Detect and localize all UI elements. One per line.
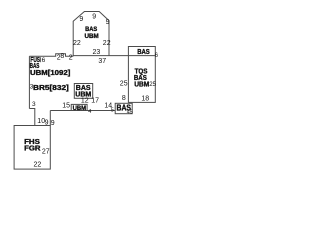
west wall [28, 56, 30, 108]
boxed label BAS (south-east porch box) [115, 103, 132, 113]
svg-text:22: 22 [73, 40, 81, 47]
garage FHS/FGR box [14, 126, 50, 170]
svg-text:25: 25 [120, 81, 128, 88]
TQS right section rectangle [128, 47, 155, 103]
svg-text:23: 23 [93, 49, 101, 56]
svg-text:UBM[1092]: UBM[1092] [30, 70, 70, 77]
svg-text:5: 5 [111, 107, 114, 113]
svg-text:8: 8 [60, 53, 64, 60]
dim 16 [40, 57, 42, 62]
svg-text:UBM: UBM [73, 105, 87, 112]
svg-text:25: 25 [149, 81, 156, 88]
svg-text:27: 27 [42, 149, 50, 156]
svg-text:5: 5 [130, 110, 133, 116]
svg-text:9: 9 [45, 119, 49, 126]
svg-text:BAS: BAS [137, 49, 150, 56]
svg-text:17: 17 [91, 97, 99, 104]
octagon section outline (top BAS/UBM bay) [73, 12, 109, 57]
svg-text:22: 22 [34, 162, 42, 169]
svg-text:BAS: BAS [30, 63, 40, 70]
svg-text:37: 37 [98, 58, 106, 65]
main bottom wall [50, 110, 115, 112]
svg-text:8: 8 [122, 95, 126, 102]
svg-text:9: 9 [51, 120, 55, 127]
boxed label BAS/UBM (mid box) [74, 84, 92, 99]
svg-text:9: 9 [106, 19, 110, 26]
svg-text:4: 4 [88, 109, 91, 115]
svg-text:18: 18 [141, 95, 149, 102]
main top wall with 2x8 bump and TQS header divider [29, 54, 73, 56]
svg-text:UBM: UBM [85, 33, 100, 40]
svg-text:12: 12 [81, 98, 89, 105]
svg-text:6: 6 [42, 57, 46, 64]
svg-text:UBM: UBM [134, 81, 149, 88]
svg-text:FGR: FGR [24, 146, 40, 153]
east jog of garage up to main bottom wall [49, 111, 51, 126]
west jog (3 over, 10 down) [29, 109, 34, 126]
svg-text:6: 6 [155, 53, 159, 59]
svg-text:BR5[832]: BR5[832] [33, 85, 69, 92]
svg-text:9: 9 [79, 16, 83, 23]
svg-text:22: 22 [103, 40, 111, 47]
svg-text:9: 9 [92, 13, 96, 20]
svg-text:3: 3 [32, 101, 36, 108]
svg-text:2: 2 [69, 55, 73, 62]
boxed label UBM (small south box) [71, 104, 87, 110]
svg-text:15: 15 [62, 103, 70, 110]
